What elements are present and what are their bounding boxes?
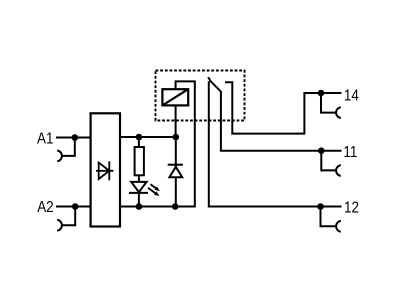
- clamp terminal 12: [321, 207, 341, 232]
- clamp terminal 14: [321, 93, 341, 118]
- node diode branch bottom: [172, 203, 179, 210]
- LED light arrows: [148, 184, 160, 196]
- resistor: [135, 147, 144, 175]
- svg-text:11: 11: [343, 144, 357, 161]
- relay coil K1: [162, 89, 188, 105]
- wire A2 input: [56, 206, 91, 208]
- clamp terminal 11: [321, 151, 341, 176]
- relay contact NO fixed (to 14): [225, 82, 342, 133]
- LED: [129, 182, 148, 193]
- relay contact blade (common, to 11): [208, 77, 341, 151]
- svg-text:A1: A1: [37, 131, 53, 148]
- protection diode (inside box): [96, 161, 113, 180]
- svg-text:A2: A2: [37, 199, 53, 216]
- freewheeling diode: [168, 165, 183, 178]
- node terminal 12 junction: [317, 203, 324, 210]
- node resistor branch top: [136, 134, 143, 141]
- node resistor branch bottom: [136, 203, 143, 210]
- node terminal 11 junction: [318, 147, 325, 154]
- svg-text:12: 12: [344, 200, 359, 217]
- node terminal 14 junction: [318, 90, 325, 97]
- input protection box: [91, 113, 120, 226]
- node A1 junction: [72, 134, 79, 141]
- clamp terminal A2: [57, 207, 75, 231]
- wire resistor/LED branch: [138, 137, 140, 207]
- wire coil bottom to A1 branch: [175, 105, 177, 137]
- node diode/coil branch top: [173, 134, 180, 141]
- node A2 junction: [72, 203, 79, 210]
- svg-text:14: 14: [344, 87, 359, 104]
- dashed relay outline: [156, 71, 245, 121]
- wire A2 internal (box to coil return elbow): [120, 81, 195, 206]
- wire freewheeling diode branch: [175, 137, 177, 207]
- wire A1 input: [56, 137, 91, 139]
- clamp terminal A1: [57, 138, 75, 162]
- relay contact NC fixed (to 12): [209, 81, 342, 206]
- wire A1 internal (box to coil branch): [120, 136, 176, 138]
